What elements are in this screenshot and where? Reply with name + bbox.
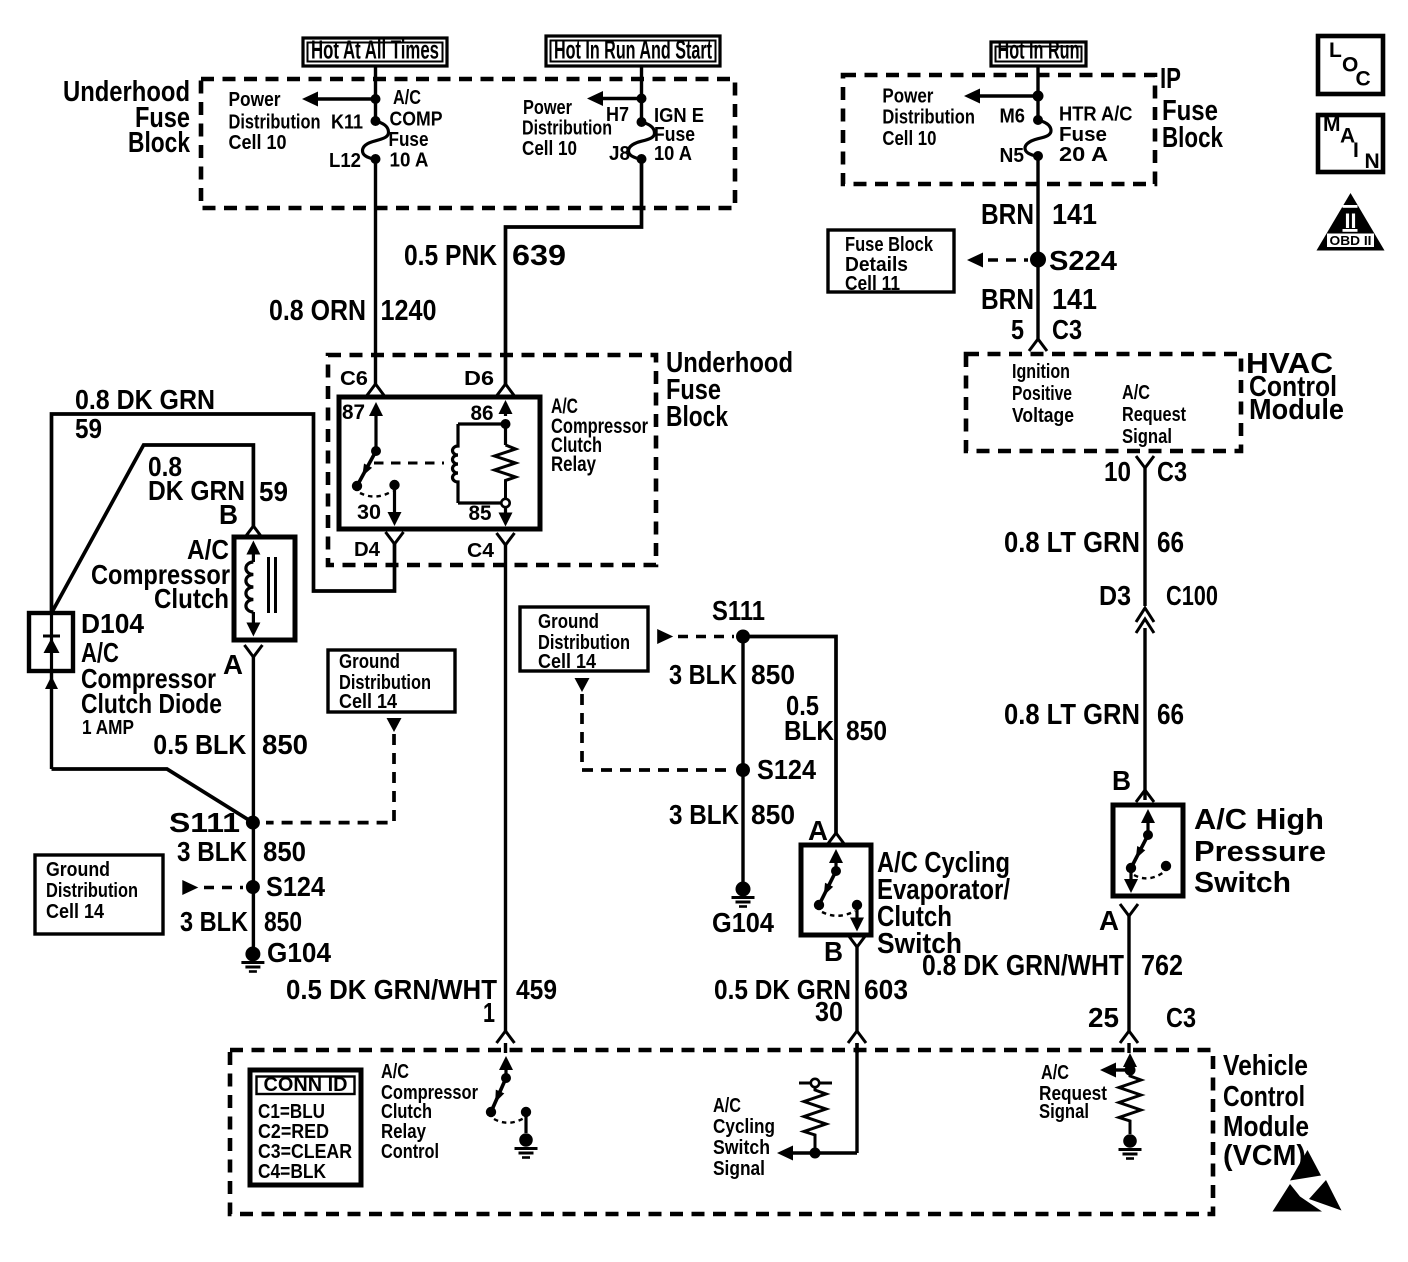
svg-text:Ground: Ground: [46, 859, 110, 881]
svg-text:Distribution: Distribution: [229, 112, 321, 134]
svg-text:30: 30: [357, 501, 381, 524]
svg-text:BRN: BRN: [981, 199, 1034, 231]
svg-text:C3: C3: [1052, 314, 1082, 345]
svg-text:Cell 10: Cell 10: [882, 128, 936, 150]
svg-text:Hot In Run: Hot In Run: [998, 35, 1080, 65]
svg-text:10 A: 10 A: [654, 143, 692, 165]
svg-text:C4: C4: [467, 540, 495, 562]
svg-text:BRN: BRN: [981, 284, 1034, 316]
svg-text:A/C High: A/C High: [1194, 804, 1324, 836]
svg-text:Relay: Relay: [551, 453, 596, 476]
svg-text:Cell 14: Cell 14: [46, 901, 105, 923]
svg-text:Cell 14: Cell 14: [339, 691, 398, 713]
svg-text:3 BLK: 3 BLK: [669, 799, 739, 830]
svg-text:66: 66: [1157, 699, 1184, 731]
svg-text:0.5 DK GRN/WHT: 0.5 DK GRN/WHT: [286, 974, 497, 1005]
svg-text:(VCM): (VCM): [1223, 1140, 1306, 1172]
svg-text:59: 59: [259, 476, 288, 507]
svg-text:A: A: [808, 815, 828, 846]
svg-text:Request: Request: [1122, 404, 1186, 426]
svg-text:Positive: Positive: [1012, 383, 1072, 405]
svg-text:C3: C3: [1157, 456, 1187, 487]
svg-text:Module: Module: [1223, 1111, 1309, 1143]
svg-text:L: L: [1329, 39, 1342, 62]
svg-text:59: 59: [75, 413, 102, 444]
svg-text:S124: S124: [757, 754, 816, 785]
svg-text:G104: G104: [267, 937, 331, 968]
svg-text:C4=BLK: C4=BLK: [258, 1161, 326, 1183]
svg-text:Clutch: Clutch: [381, 1101, 432, 1123]
svg-text:459: 459: [516, 974, 557, 1005]
svg-text:20 A: 20 A: [1059, 144, 1108, 166]
svg-text:C100: C100: [1166, 580, 1218, 611]
svg-text:D104: D104: [81, 608, 144, 639]
svg-text:I: I: [1353, 139, 1359, 162]
svg-text:Block: Block: [128, 127, 191, 159]
svg-text:Distribution: Distribution: [522, 118, 612, 140]
svg-text:Ignition: Ignition: [1012, 361, 1070, 383]
svg-text:1 AMP: 1 AMP: [82, 717, 134, 739]
svg-text:B: B: [219, 499, 238, 530]
svg-text:1: 1: [483, 997, 495, 1028]
svg-text:CONN ID: CONN ID: [264, 1074, 348, 1096]
svg-text:0.8 LT GRN: 0.8 LT GRN: [1004, 527, 1140, 559]
svg-text:762: 762: [1141, 950, 1183, 982]
svg-text:0.8 ORN: 0.8 ORN: [269, 295, 366, 327]
svg-text:10 A: 10 A: [390, 150, 429, 172]
svg-text:3 BLK: 3 BLK: [180, 906, 248, 937]
svg-text:Ground: Ground: [538, 611, 599, 633]
svg-text:603: 603: [864, 974, 908, 1005]
svg-text:Cell 11: Cell 11: [845, 273, 900, 295]
svg-text:0.8 LT GRN: 0.8 LT GRN: [1004, 699, 1140, 731]
svg-text:B: B: [824, 936, 843, 967]
svg-text:Clutch: Clutch: [154, 583, 229, 614]
svg-text:Cell 10: Cell 10: [229, 132, 287, 154]
svg-text:C3: C3: [1166, 1002, 1196, 1033]
svg-text:A/C: A/C: [393, 87, 421, 109]
svg-text:3 BLK: 3 BLK: [669, 659, 737, 690]
svg-text:850: 850: [846, 715, 887, 746]
svg-text:Cell 10: Cell 10: [522, 138, 577, 160]
svg-text:10: 10: [1104, 456, 1131, 487]
svg-text:C1=BLU: C1=BLU: [258, 1101, 325, 1123]
svg-text:Cell 14: Cell 14: [538, 651, 597, 673]
svg-text:L12: L12: [329, 150, 361, 172]
svg-text:Signal: Signal: [1122, 426, 1172, 448]
svg-text:C3=CLEAR: C3=CLEAR: [258, 1141, 352, 1163]
svg-text:N5: N5: [1000, 145, 1025, 167]
svg-text:Relay: Relay: [381, 1121, 427, 1143]
svg-text:87: 87: [342, 401, 365, 424]
svg-text:850: 850: [262, 729, 308, 760]
svg-text:Block: Block: [666, 401, 729, 433]
svg-text:D4: D4: [354, 539, 381, 561]
svg-text:850: 850: [751, 659, 795, 690]
svg-text:850: 850: [263, 836, 306, 867]
svg-text:66: 66: [1157, 527, 1184, 559]
svg-text:Cycling: Cycling: [713, 1116, 775, 1138]
svg-text:OBD II: OBD II: [1330, 233, 1372, 248]
svg-text:A: A: [223, 649, 243, 680]
svg-text:850: 850: [751, 799, 795, 830]
svg-text:C6: C6: [340, 368, 368, 390]
svg-text:141: 141: [1052, 199, 1097, 231]
svg-text:Ground: Ground: [339, 651, 400, 673]
svg-text:A/C: A/C: [1122, 382, 1150, 404]
svg-text:S111: S111: [169, 807, 240, 838]
svg-text:Switch: Switch: [713, 1137, 770, 1159]
svg-text:J8: J8: [609, 143, 630, 165]
svg-text:639: 639: [512, 240, 566, 272]
svg-text:Fuse: Fuse: [1059, 124, 1107, 146]
svg-text:0.5 BLK: 0.5 BLK: [153, 729, 246, 760]
svg-text:C2=RED: C2=RED: [258, 1121, 329, 1143]
svg-text:Pressure: Pressure: [1194, 836, 1326, 868]
svg-text:B: B: [1112, 765, 1131, 796]
svg-text:COMP: COMP: [390, 109, 443, 131]
svg-text:G104: G104: [712, 907, 774, 938]
svg-text:K11: K11: [331, 112, 363, 134]
svg-text:HTR A/C: HTR A/C: [1059, 104, 1133, 126]
svg-text:C: C: [1356, 68, 1371, 91]
svg-text:Block: Block: [1162, 122, 1224, 154]
svg-text:86: 86: [471, 402, 494, 425]
svg-text:Hot At All Times: Hot At All Times: [311, 35, 439, 65]
svg-text:Control: Control: [1223, 1081, 1305, 1113]
svg-text:M: M: [1323, 113, 1341, 136]
svg-text:0.5 PNK: 0.5 PNK: [404, 240, 497, 272]
svg-text:Distribution: Distribution: [46, 880, 138, 902]
svg-text:Hot In Run And Start: Hot In Run And Start: [554, 35, 712, 65]
svg-text:25: 25: [1088, 1002, 1119, 1033]
svg-text:5: 5: [1011, 314, 1024, 345]
svg-text:Control: Control: [381, 1141, 439, 1163]
svg-text:S224: S224: [1049, 245, 1117, 276]
svg-text:Switch: Switch: [1194, 867, 1291, 899]
svg-text:S111: S111: [712, 595, 765, 626]
svg-text:Clutch Diode: Clutch Diode: [81, 688, 222, 719]
svg-text:Power: Power: [882, 86, 933, 108]
svg-text:0.8 DK GRN: 0.8 DK GRN: [75, 384, 215, 415]
svg-text:Power: Power: [523, 97, 572, 119]
svg-text:A/C: A/C: [713, 1095, 741, 1117]
svg-text:850: 850: [264, 906, 302, 937]
svg-text:Vehicle: Vehicle: [1223, 1050, 1308, 1082]
svg-text:A: A: [1099, 905, 1119, 936]
svg-text:M6: M6: [1000, 106, 1026, 128]
svg-text:IP: IP: [1160, 63, 1181, 95]
svg-text:1240: 1240: [381, 295, 437, 327]
svg-text:141: 141: [1052, 284, 1097, 316]
svg-text:Switch: Switch: [877, 928, 962, 960]
svg-text:N: N: [1365, 150, 1380, 173]
svg-text:A/C: A/C: [1041, 1062, 1069, 1084]
svg-text:85: 85: [469, 502, 492, 525]
svg-text:BLK: BLK: [784, 715, 834, 746]
svg-text:D6: D6: [464, 368, 494, 390]
svg-text:Voltage: Voltage: [1012, 405, 1074, 427]
svg-text:Signal: Signal: [1039, 1101, 1089, 1123]
svg-text:Fuse Block: Fuse Block: [845, 234, 934, 256]
svg-text:A/C: A/C: [381, 1061, 409, 1083]
svg-text:D3: D3: [1099, 580, 1131, 611]
svg-text:3 BLK: 3 BLK: [177, 836, 247, 867]
svg-text:30: 30: [815, 996, 843, 1027]
svg-text:Fuse: Fuse: [389, 129, 429, 151]
svg-text:Distribution: Distribution: [882, 107, 975, 129]
svg-text:Module: Module: [1249, 394, 1344, 426]
svg-text:Power: Power: [229, 89, 281, 111]
svg-text:Signal: Signal: [713, 1158, 765, 1180]
svg-text:S124: S124: [266, 871, 325, 902]
svg-text:H7: H7: [606, 104, 629, 126]
